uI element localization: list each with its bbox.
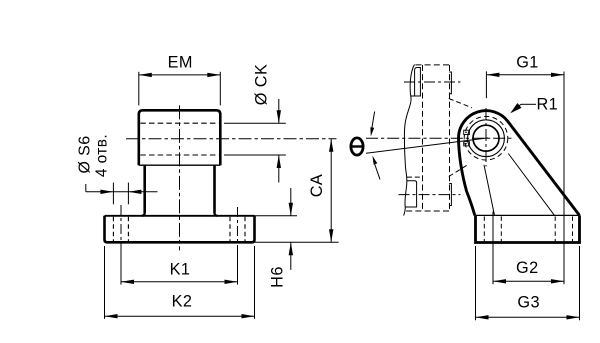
dimension Ø S6, 4 holes: [85, 184, 87, 192]
left view flange outline: [105, 216, 255, 243]
boss ring solid circle: [468, 120, 505, 157]
phantom boss bottom: [407, 176, 422, 178]
left view right hole centerline: [237, 207, 239, 251]
left view vertical centerline: [179, 105, 181, 250]
bore circle: [473, 125, 499, 151]
svg-text:Ø S6: Ø S6: [77, 135, 94, 173]
bracket web lines: [484, 165, 495, 216]
left view top block outline: [139, 110, 221, 165]
boss ring dashed circle: [464, 116, 508, 160]
dimension K2: [104, 246, 106, 319]
swivel angle line: [366, 138, 488, 153]
svg-text:K2: K2: [172, 293, 193, 311]
bracket base: [476, 215, 580, 242]
bracket base top edge: [476, 214, 580, 216]
left view left hole centerline: [120, 205, 122, 250]
dimension EM: [138, 72, 140, 106]
svg-text:G3: G3: [517, 294, 540, 312]
clamp slot detail: [464, 130, 470, 134]
phantom mating part dashed outline: [415, 64, 449, 66]
left view stem: [143, 165, 146, 213]
dimension H6: [255, 215, 298, 217]
svg-text:CA: CA: [308, 174, 326, 197]
svg-text:G1: G1: [516, 54, 539, 72]
left view left hole hidden lines: [112, 217, 114, 242]
svg-text:K1: K1: [170, 260, 191, 278]
angle dimension theta: [371, 112, 374, 132]
left view bore hidden lines: [140, 122, 219, 124]
left view bore centerline: [126, 138, 337, 140]
svg-text:H6: H6: [269, 266, 287, 288]
phantom boss top: [411, 68, 420, 97]
phantom bottom centerline: [399, 194, 461, 196]
svg-text:4 отв.: 4 отв.: [94, 134, 111, 177]
phantom top centerline: [404, 81, 461, 83]
phantom clevis dashed diagonals: [449, 99, 472, 108]
base left hole hidden lines and centerline: [483, 216, 485, 241]
left view stem fillets: [142, 213, 145, 216]
dimension G1: [485, 71, 487, 98]
bracket outer contour: [459, 111, 580, 216]
svg-text:R1: R1: [536, 96, 558, 114]
theta symbol: [351, 138, 363, 155]
left view flange top edge: [105, 215, 255, 217]
svg-text:Ø CK: Ø CK: [253, 64, 271, 105]
left view right hole hidden lines: [229, 217, 231, 242]
left view top block bottom edge: [139, 164, 221, 166]
base right hole hidden lines and centerline (G1 extension): [554, 216, 556, 241]
boss crosshair centerlines: [366, 137, 513, 139]
dimension Ø CK: [224, 122, 286, 124]
label R1 with leader: [521, 103, 536, 105]
dimension G3: [475, 246, 477, 320]
phantom right lugs: [449, 72, 451, 94]
svg-text:G2: G2: [516, 259, 539, 277]
dimension CA: [255, 241, 339, 243]
dimension K1: [120, 250, 122, 285]
svg-text:EM: EM: [168, 54, 193, 72]
phantom mating part break line: [404, 65, 415, 216]
dimension G2: [493, 280, 564, 282]
